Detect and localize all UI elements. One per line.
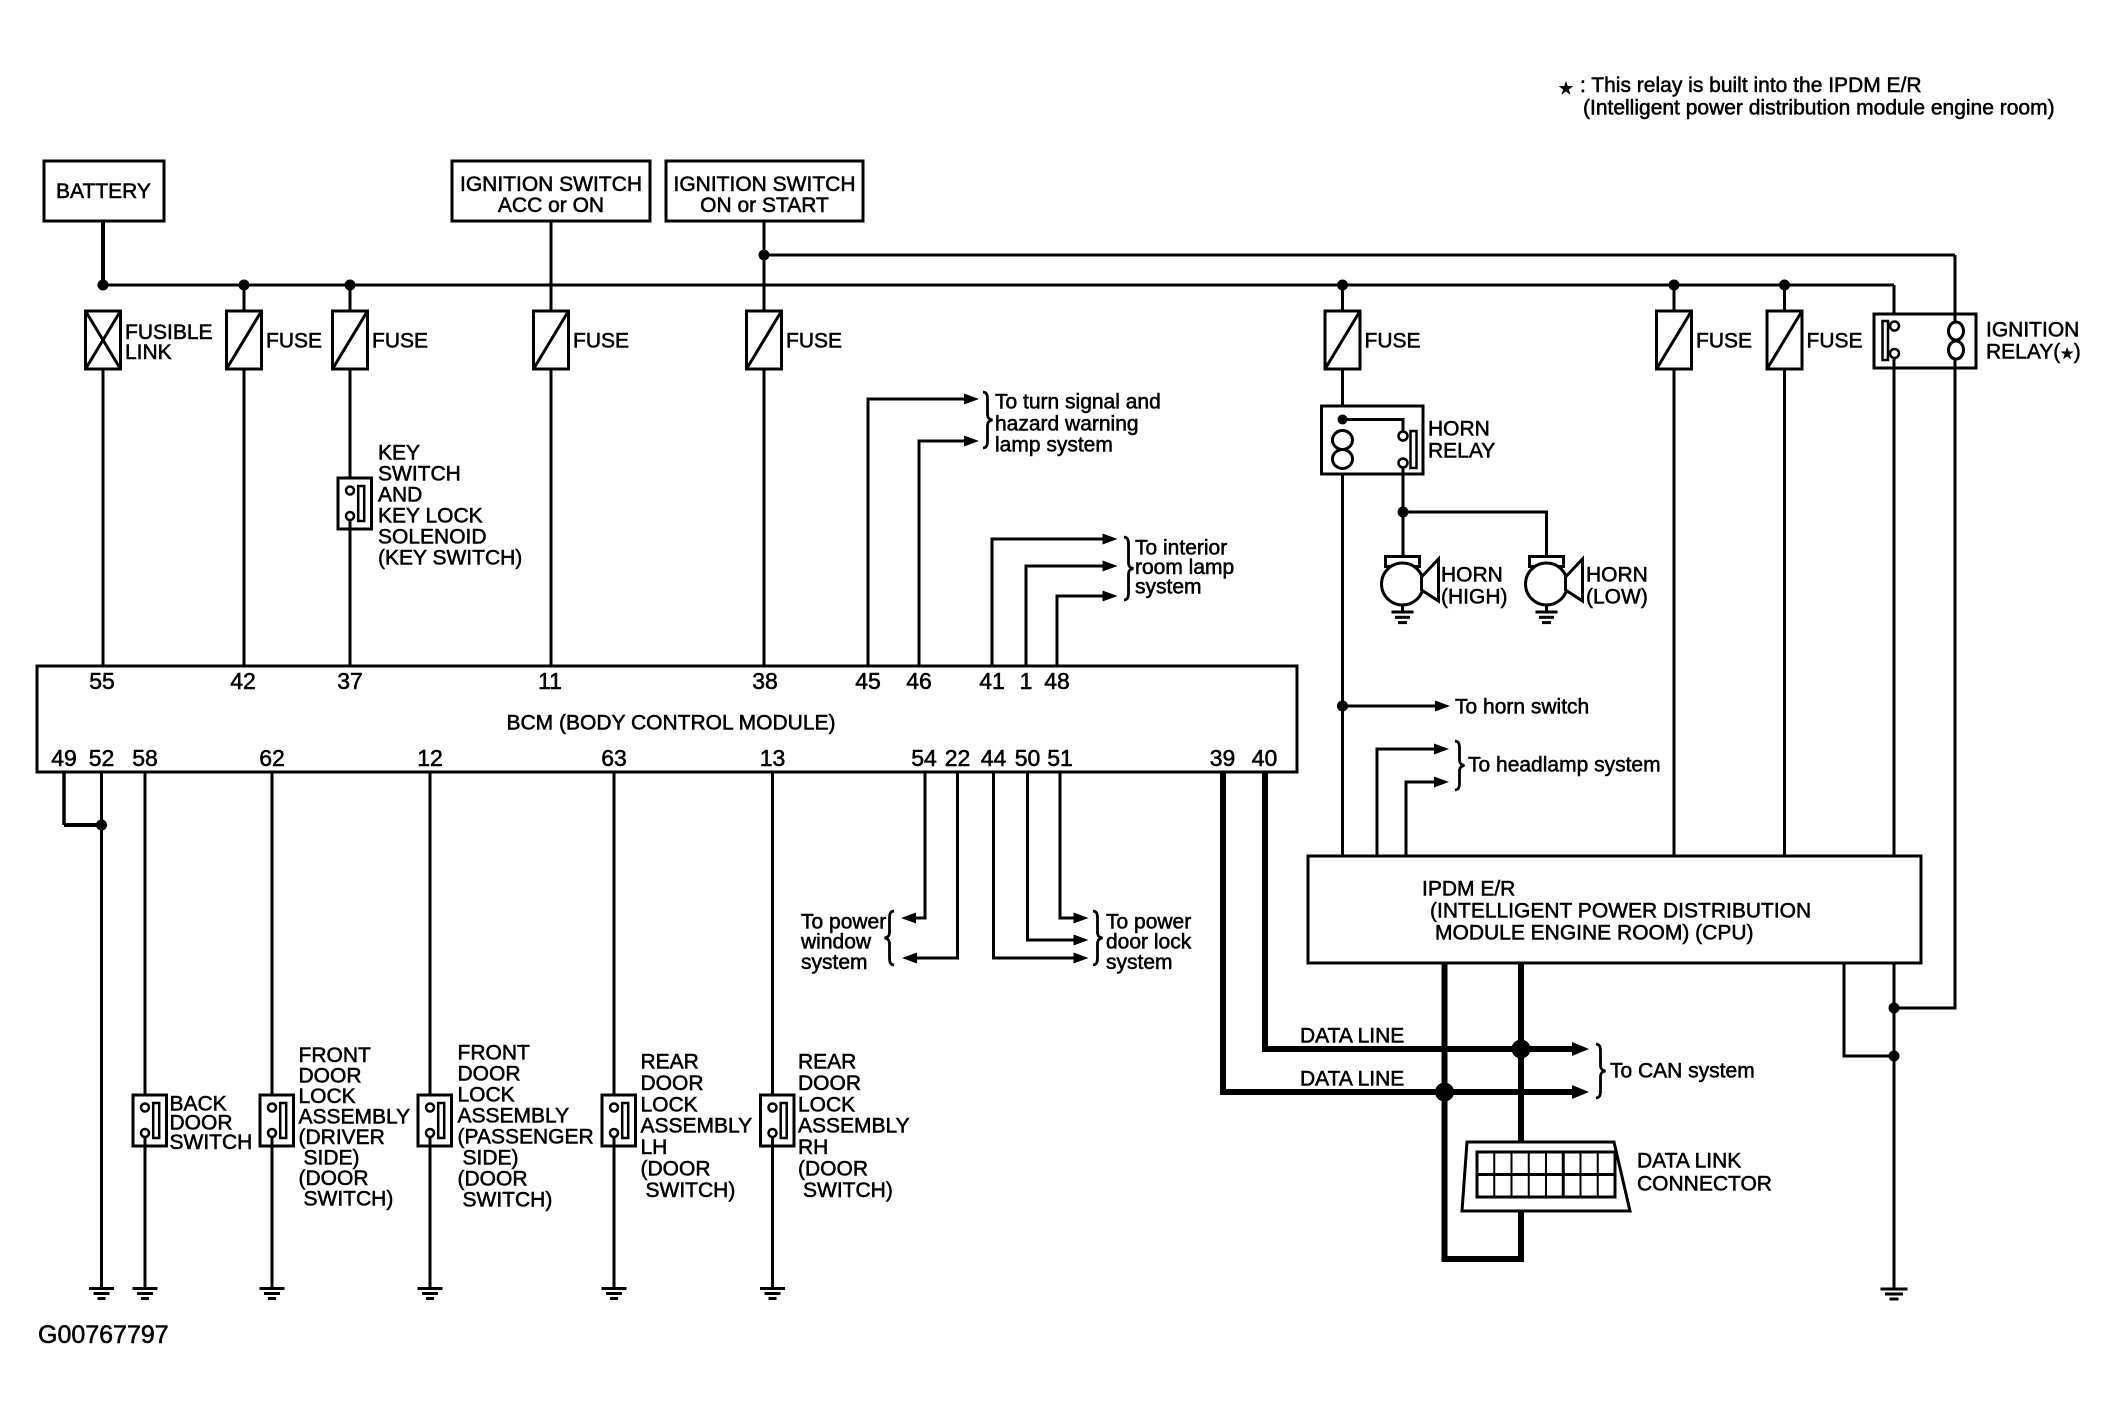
brace power door lock group: [1093, 911, 1103, 965]
svg-text:62: 62: [259, 745, 285, 771]
svg-text:13: 13: [760, 745, 786, 771]
svg-text:FUSE: FUSE: [372, 330, 428, 353]
brace power window group: [885, 911, 895, 965]
svg-text:RH: RH: [798, 1136, 828, 1159]
svg-text:system: system: [801, 951, 868, 974]
fuse F4 ON/START 38: [747, 311, 782, 369]
svg-text:ON or START: ON or START: [700, 194, 829, 217]
svg-text:DATA LINK: DATA LINK: [1637, 1150, 1741, 1173]
svg-text:BCM (BODY CONTROL MODULE): BCM (BODY CONTROL MODULE): [506, 712, 835, 735]
brace CAN group: [1596, 1044, 1606, 1098]
wire BCM pin 50 to door lock arrow: [1028, 772, 1075, 940]
svg-text:hazard warning: hazard warning: [995, 413, 1139, 436]
wire front door switch driver to ground: [271, 1137, 274, 1289]
wire ignition relay coil down to node: [1894, 359, 1955, 1008]
svg-text:(DOOR: (DOOR: [798, 1158, 868, 1181]
svg-text:LINK: LINK: [125, 341, 172, 364]
svg-text:45: 45: [855, 668, 881, 694]
rear door lock assembly RH switch: [761, 1095, 795, 1146]
wire front door switch passenger to ground: [429, 1137, 432, 1289]
svg-text:IGNITION SWITCH: IGNITION SWITCH: [674, 173, 856, 196]
svg-text:39: 39: [1210, 745, 1236, 771]
svg-text:(Intelligent power distributio: (Intelligent power distribution module e…: [1583, 97, 2055, 120]
wire bus stub fuse 37: [349, 285, 352, 311]
ignition relay K2: [1874, 314, 1976, 368]
svg-text:LH: LH: [641, 1136, 668, 1159]
svg-text:KEY LOCK: KEY LOCK: [378, 505, 483, 528]
svg-text:DOOR: DOOR: [641, 1072, 704, 1095]
svg-text:LOCK: LOCK: [798, 1093, 855, 1116]
svg-text:ACC or ON: ACC or ON: [498, 194, 604, 217]
wire BCM pin 54 to power window arrow: [914, 772, 925, 918]
node horn relay coil junction: [1338, 415, 1348, 425]
fuse F5 horn relay: [1325, 311, 1360, 369]
wire BCM pin 40 data line 1: [1265, 772, 1574, 1049]
svg-text:SWITCH): SWITCH): [463, 1189, 553, 1212]
ground IPDM ignition relay: [1881, 1288, 1908, 1291]
svg-text:system: system: [1135, 576, 1202, 599]
svg-text:48: 48: [1044, 668, 1070, 694]
ignition relay contact: [1883, 321, 1889, 360]
horn relay contact: [1399, 432, 1408, 441]
wire BCM pin 12 to front door switch passenger: [429, 772, 432, 1104]
wire ignition relay branch to ground: [1893, 963, 1896, 1289]
wire BCM pin 41 to interior lamp arrow: [992, 539, 1103, 666]
svg-text:ASSEMBLY: ASSEMBLY: [641, 1115, 753, 1138]
svg-text:49: 49: [51, 745, 77, 771]
brace interior room lamp group: [1124, 537, 1134, 600]
wire horn fuse to horn relay: [1341, 369, 1344, 406]
svg-text:IGNITION: IGNITION: [1986, 319, 2079, 342]
wire ignition relay contact to IPDM: [1893, 358, 1896, 856]
node bus junction IPDM fuse 2: [1779, 280, 1790, 291]
svg-text:FRONT: FRONT: [458, 1042, 530, 1065]
fuse F6 IPDM: [1657, 311, 1692, 369]
wire key switch to BCM pin 37: [349, 521, 352, 667]
svg-text:63: 63: [601, 745, 627, 771]
svg-text:: This relay is built into the: : This relay is built into the IPDM E/R: [1580, 74, 1922, 97]
svg-text:51: 51: [1047, 745, 1073, 771]
wire BCM pin 39 data line 2: [1223, 772, 1574, 1092]
wire BCM pin 13 to rear door switch RH: [771, 772, 774, 1104]
svg-text:IGNITION SWITCH: IGNITION SWITCH: [460, 173, 642, 196]
node bus junction fuse 42: [239, 280, 250, 291]
svg-text:★: ★: [1558, 79, 1573, 98]
wire rear door switch RH to ground: [771, 1137, 774, 1289]
wire battery bus: [103, 284, 1894, 287]
BCM body control module: [37, 666, 1297, 772]
wire BCM pin 62 to front door switch driver: [271, 772, 274, 1104]
wire fuse to BCM pin 11: [550, 369, 553, 666]
wire BCM pin 46 to turn signal arrow: [919, 441, 964, 666]
svg-text:42: 42: [230, 668, 256, 694]
wire fusible link to BCM pin 55: [102, 369, 105, 666]
wire to horn switch arrow: [1343, 705, 1437, 708]
ground pin 52: [89, 1287, 114, 1290]
wire BCM pin 22 to power window arrow: [915, 772, 958, 958]
wire bus stub horn fuse: [1341, 285, 1344, 311]
ignition switch ACC or ON: [452, 161, 650, 221]
svg-text:SOLENOID: SOLENOID: [378, 526, 487, 549]
svg-text:CONNECTOR: CONNECTOR: [1637, 1173, 1772, 1196]
node ON/START feed junction: [759, 250, 770, 261]
svg-text:FUSE: FUSE: [1365, 330, 1421, 353]
fuse F7 IPDM: [1767, 311, 1802, 369]
horn low: [1530, 557, 1564, 567]
svg-text:MODULE ENGINE ROOM) (CPU): MODULE ENGINE ROOM) (CPU): [1435, 922, 1754, 945]
svg-text:lamp system: lamp system: [995, 434, 1113, 457]
svg-text:REAR: REAR: [798, 1051, 856, 1074]
wire bus to ignition relay contact: [1893, 285, 1896, 322]
svg-text:HORN: HORN: [1441, 564, 1503, 587]
svg-text:LOCK: LOCK: [641, 1093, 698, 1116]
ground rear door switch LH: [602, 1287, 627, 1290]
svg-text:DATA LINE: DATA LINE: [1300, 1068, 1404, 1091]
fusible link FL: [86, 311, 121, 369]
node bus junction IPDM fuse 1: [1669, 280, 1680, 291]
wire ignition ON/START stub to fuse: [763, 221, 766, 311]
svg-text:38: 38: [752, 668, 778, 694]
svg-text:(KEY SWITCH): (KEY SWITCH): [378, 547, 522, 570]
wire bus stub IPDM fuse 2: [1783, 285, 1786, 311]
svg-text:HORN: HORN: [1586, 564, 1648, 587]
svg-text:(INTELLIGENT POWER DISTRIBUTIO: (INTELLIGENT POWER DISTRIBUTION: [1430, 900, 1811, 923]
node ignition relay coil ground junction: [1889, 1003, 1900, 1014]
svg-text:ASSEMBLY: ASSEMBLY: [458, 1105, 570, 1128]
svg-text:(DOOR: (DOOR: [641, 1158, 711, 1181]
node horn branch junction: [1398, 507, 1409, 518]
node pin 49-52 junction: [96, 820, 107, 831]
svg-text:FUSE: FUSE: [266, 330, 322, 353]
wire IPDM fuse 2 down: [1783, 369, 1786, 856]
wire ignition ON/START feed to ignition relay coil: [764, 254, 1955, 257]
fuse F3 ACC 11: [534, 311, 569, 369]
svg-text:DOOR: DOOR: [458, 1063, 521, 1086]
svg-text:To turn signal and: To turn signal and: [995, 391, 1161, 414]
wire bus stub fuse 42: [243, 285, 246, 311]
svg-text:SWITCH: SWITCH: [170, 1131, 253, 1154]
front door lock assembly passenger side switch: [418, 1095, 452, 1146]
svg-text:50: 50: [1015, 745, 1041, 771]
wire to horn high: [1402, 512, 1405, 560]
ground horn high: [1392, 611, 1414, 614]
wire horn relay coil to IPDM with horn switch tap: [1341, 474, 1344, 856]
svg-text:SWITCH): SWITCH): [304, 1188, 394, 1211]
wire horn relay contact to horns: [1402, 468, 1405, 513]
wire fuse to BCM pin 38: [763, 369, 766, 666]
brace turn signal group: [983, 392, 993, 448]
svg-text:DATA LINE: DATA LINE: [1300, 1025, 1404, 1048]
IPDM E/R box: [1308, 856, 1921, 963]
svg-text:(DOOR: (DOOR: [458, 1168, 528, 1191]
svg-text:54: 54: [911, 745, 937, 771]
wire IPDM to headlamp arrow 2: [1406, 782, 1435, 856]
svg-text:11: 11: [538, 668, 562, 694]
front door lock assembly driver side switch: [260, 1095, 294, 1146]
battery B1: [44, 161, 164, 221]
horn relay K1: [1322, 406, 1424, 474]
node bus junction horn fuse: [1337, 280, 1348, 291]
wire BCM pin 1 to interior lamp arrow: [1026, 566, 1103, 666]
svg-text:37: 37: [337, 668, 363, 694]
key switch and key lock solenoid: [338, 478, 372, 529]
wire BCM pin 45 to turn signal arrow: [868, 399, 964, 666]
wire IPDM CAN pin 2 to data link connector bottom: [1445, 963, 1522, 1259]
wire BCM pin 51 to door lock arrow: [1060, 772, 1074, 918]
ground front door switch driver: [260, 1287, 285, 1290]
svg-text:52: 52: [89, 745, 115, 771]
svg-text:FUSE: FUSE: [1807, 330, 1863, 353]
svg-text:22: 22: [945, 745, 971, 771]
svg-text:SWITCH): SWITCH): [646, 1179, 736, 1202]
svg-text:58: 58: [132, 745, 158, 771]
wire BCM pin 63 to rear door switch LH: [613, 772, 616, 1104]
wire horn relay internal link: [1343, 420, 1404, 432]
svg-text:46: 46: [906, 668, 932, 694]
svg-text:(LOW): (LOW): [1586, 586, 1648, 609]
svg-text:BATTERY: BATTERY: [56, 180, 151, 203]
svg-text:HORN: HORN: [1428, 418, 1490, 441]
svg-text:FUSE: FUSE: [786, 330, 842, 353]
svg-text:44: 44: [981, 745, 1007, 771]
wire IPDM to headlamp arrow 1: [1377, 749, 1435, 856]
svg-text:SIDE): SIDE): [463, 1147, 519, 1170]
wire BCM pin 52 to ground: [100, 772, 103, 1289]
ignition relay coil: [1949, 322, 1964, 340]
svg-text:LOCK: LOCK: [458, 1084, 515, 1107]
svg-text:REAR: REAR: [641, 1051, 699, 1074]
wire IPDM CAN pin to data link connector top: [1518, 963, 1524, 1152]
svg-text:DOOR: DOOR: [798, 1072, 861, 1095]
horn high: [1386, 557, 1420, 567]
node horn switch junction: [1337, 701, 1348, 712]
svg-text:G00767797: G00767797: [38, 1321, 169, 1349]
svg-text:SWITCH): SWITCH): [803, 1179, 893, 1202]
ground rear door switch RH: [760, 1287, 785, 1290]
svg-text:FUSE: FUSE: [1696, 330, 1752, 353]
svg-text:To CAN system: To CAN system: [1610, 1060, 1755, 1083]
svg-text:RELAY(★): RELAY(★): [1986, 341, 2081, 364]
svg-text:(HIGH): (HIGH): [1441, 586, 1508, 609]
ignition switch ON or START: [666, 161, 863, 221]
fuse F2 battery 37: [333, 311, 368, 369]
wire rear door switch LH to ground: [613, 1137, 616, 1289]
horn relay coil: [1333, 431, 1353, 450]
svg-text:55: 55: [89, 668, 115, 694]
wire BCM pin 48 to interior lamp arrow: [1057, 596, 1103, 666]
ground front door switch passenger: [418, 1287, 443, 1290]
svg-text:1: 1: [1020, 668, 1033, 694]
svg-text:To headlamp system: To headlamp system: [1468, 754, 1661, 777]
wire back door switch to ground: [144, 1137, 147, 1289]
wire BCM pin 49 jog to pin 52 line: [62, 772, 66, 825]
node data line 2 junction: [1435, 1083, 1454, 1102]
wire bus stub IPDM fuse 1: [1673, 285, 1676, 311]
svg-text:RELAY: RELAY: [1428, 440, 1495, 463]
node data line 1 junction: [1512, 1040, 1531, 1059]
wire ignition ACC stub to fuse: [550, 221, 553, 311]
wire IPDM fuse 1 down: [1673, 369, 1676, 856]
svg-text:(PASSENGER: (PASSENGER: [458, 1126, 594, 1149]
wire battery to bus: [101, 221, 105, 285]
brace headlamp group: [1455, 741, 1465, 790]
wire fuse to BCM pin 42: [243, 369, 246, 666]
wire IPDM right pin to ground line: [1844, 963, 1894, 1056]
svg-text:IPDM E/R: IPDM E/R: [1422, 878, 1515, 901]
fuse F1 battery 42: [227, 311, 262, 369]
svg-text:AND: AND: [378, 484, 422, 507]
wire feed to ignition relay coil: [1954, 255, 1957, 323]
ground horn low: [1536, 611, 1558, 614]
svg-text:12: 12: [417, 745, 443, 771]
node bus junction fuse 37: [345, 280, 356, 291]
data link connector: [1462, 1142, 1630, 1211]
wire fuse to key switch: [349, 369, 352, 487]
node battery bus junction at fusible link: [98, 280, 109, 291]
svg-text:system: system: [1106, 951, 1173, 974]
back door switch: [133, 1095, 167, 1146]
ground back door switch: [133, 1287, 158, 1290]
svg-text:To horn switch: To horn switch: [1455, 696, 1589, 719]
svg-text:FUSE: FUSE: [573, 330, 629, 353]
svg-text:41: 41: [979, 668, 1005, 694]
wire BCM pin 44 to door lock arrow: [994, 772, 1075, 958]
wire BCM pin 58 to back door switch: [144, 772, 147, 1104]
svg-text:ASSEMBLY: ASSEMBLY: [798, 1115, 910, 1138]
svg-text:SWITCH: SWITCH: [378, 463, 461, 486]
svg-text:40: 40: [1252, 745, 1278, 771]
node IPDM ground junction: [1889, 1051, 1900, 1062]
rear door lock assembly LH switch: [602, 1095, 636, 1146]
wire to horn low: [1403, 512, 1547, 560]
svg-text:KEY: KEY: [378, 442, 420, 465]
